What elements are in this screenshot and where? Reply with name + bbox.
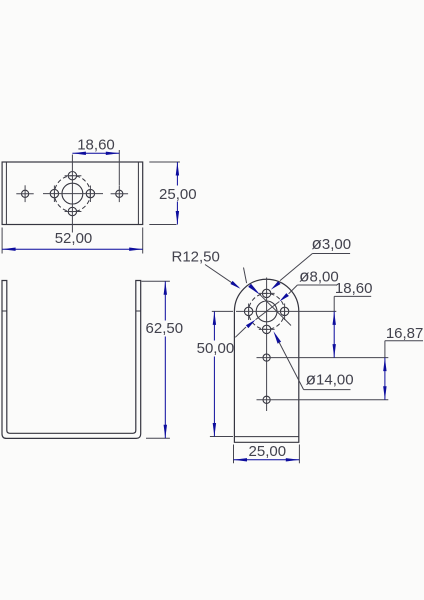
dim 50,00 bottom extension line bbox=[210, 436, 233, 438]
Ø3,00 arrow bbox=[271, 281, 281, 290]
side view: middle hole centerline + ext bbox=[257, 357, 389, 359]
top view: right hole v-centerline bbox=[118, 185, 120, 202]
side view: top hole tick bbox=[259, 292, 275, 294]
dim 25,00(side) left arrow bbox=[234, 458, 248, 461]
dim 18,60 right arrow bbox=[106, 152, 120, 155]
dim 16,87 landing line bbox=[385, 340, 423, 342]
side view: bottom hole tick bbox=[259, 328, 275, 330]
Ø14,00 upper arrow bbox=[248, 284, 260, 295]
Ø8,00 leader tail bbox=[235, 327, 246, 337]
top view: right side hole bbox=[116, 190, 123, 197]
Ø14,00 landing line bbox=[304, 389, 351, 391]
dim 25,00 down arrow bbox=[176, 211, 179, 225]
dim line 25,00 upper bbox=[176, 162, 178, 186]
dim 16,87 up arrow bbox=[383, 358, 386, 372]
dim 25,00 up arrow bbox=[176, 162, 179, 176]
dim 52,00 right extension line bbox=[142, 228, 144, 254]
top view: right Ø3 hole bbox=[86, 189, 94, 197]
top view: left side hole bbox=[22, 190, 29, 197]
dim 52,00 left arrow bbox=[2, 248, 16, 251]
dim 62,50 top extension line bbox=[142, 280, 170, 282]
side view: lower hole bbox=[263, 396, 270, 403]
dim line 50,00 upper bbox=[213, 311, 215, 340]
top view: right small hole tick bbox=[89, 186, 91, 203]
R12,50 leader line bbox=[205, 265, 239, 288]
Ø8,00 lower arrow bbox=[246, 320, 256, 329]
side view: bottom bend line bbox=[234, 436, 298, 438]
svg-text:50,00: 50,00 bbox=[197, 340, 235, 357]
top view: bottom Ø3 hole bbox=[68, 207, 76, 215]
side view: center hole Ø8 bbox=[256, 301, 277, 322]
front view: left wall bend tick bbox=[2, 310, 7, 312]
dim line 52,00 bbox=[2, 248, 143, 250]
dim 50,00 top extension line bbox=[212, 310, 233, 312]
dim 25,00 top extension line bbox=[149, 161, 180, 163]
svg-text:ø3,00: ø3,00 bbox=[312, 234, 352, 253]
Ø14,00 lower arrow bbox=[273, 331, 281, 344]
dim 25,00 bottom extension line bbox=[149, 224, 176, 226]
Ø3,00 landing line bbox=[312, 253, 350, 255]
top view: cluster vertical centerline bbox=[71, 155, 73, 233]
dim 52,00 right arrow bbox=[129, 248, 143, 251]
top view: left hole h-centerline bbox=[16, 193, 33, 195]
dim line 50,00 lower bbox=[213, 357, 215, 437]
dim 25,00(side) right arrow bbox=[286, 458, 300, 461]
side view: top Ø3 hole bbox=[262, 289, 270, 297]
top view: top hole tick bbox=[65, 175, 82, 177]
dim 18,60 leader drop bbox=[333, 296, 335, 311]
side view: lower hole centerline + ext bbox=[257, 399, 389, 401]
Ø8,00 landing line bbox=[297, 284, 336, 286]
dim 50,00 down arrow bbox=[213, 423, 216, 437]
svg-text:R12,50: R12,50 bbox=[172, 249, 220, 266]
dim 62,50 down arrow bbox=[164, 425, 167, 439]
side view: right Ø3 hole bbox=[280, 307, 288, 315]
svg-text:52,00: 52,00 bbox=[55, 230, 93, 247]
Ø14,00 leader line bbox=[279, 342, 304, 390]
dim 18,60 down arrow (side) bbox=[333, 344, 336, 358]
top view: left hole v-centerline bbox=[24, 185, 26, 202]
top view: bottom hole tick bbox=[65, 211, 82, 213]
dim 50,00 up arrow bbox=[213, 311, 216, 325]
R12,50 arrow bbox=[230, 281, 240, 289]
svg-text:18,60: 18,60 bbox=[77, 137, 115, 154]
dim 18,60 landing line bbox=[334, 295, 371, 297]
Ø8,00 leader line bbox=[289, 285, 298, 294]
dim 25,00(side) left extension line bbox=[233, 445, 235, 464]
Ø14,00 diameter line through bolt circle bbox=[260, 295, 291, 326]
dim line 18,60 (side) bbox=[333, 311, 335, 357]
dim 62,50 up arrow bbox=[164, 281, 167, 295]
svg-text:16,87: 16,87 bbox=[386, 325, 424, 342]
top view: top Ø3 hole bbox=[68, 172, 76, 180]
top view: center hole Ø8 bbox=[62, 183, 83, 204]
side view: plate outline with rounded top bbox=[234, 279, 298, 442]
dim line 18,60 (top view) bbox=[72, 152, 119, 154]
dim line 62,50 lower bbox=[164, 337, 166, 439]
side view: left Ø3 hole bbox=[244, 307, 252, 315]
side view: bottom Ø3 hole bbox=[262, 325, 270, 333]
side view: middle hole bbox=[263, 354, 270, 361]
top view: left bend line bbox=[5, 162, 7, 225]
front view: U channel outline bbox=[2, 281, 141, 439]
Ø3,00 leader line bbox=[280, 254, 312, 281]
svg-text:ø14,00: ø14,00 bbox=[306, 369, 354, 388]
dim 18,60 left arrow bbox=[72, 152, 86, 155]
dim 18,60 up arrow (side) bbox=[333, 311, 336, 325]
dim 62,50 bottom extension line bbox=[146, 437, 170, 439]
top view: left Ø3 hole bbox=[50, 189, 58, 197]
Ø8,00 upper arrow bbox=[279, 293, 289, 302]
svg-text:25,00: 25,00 bbox=[249, 443, 287, 460]
side view: bolt circle Ø14 (dashed) bbox=[249, 293, 285, 329]
top view: left small hole tick bbox=[53, 186, 55, 203]
side view: vertical centerline bbox=[266, 278, 268, 412]
svg-text:25,00: 25,00 bbox=[159, 186, 197, 203]
side view: horizontal centerline + 18,60 ext bbox=[236, 310, 336, 312]
top view: cluster horizontal centerline bbox=[43, 193, 103, 195]
dim 25,00(side) right extension line bbox=[298, 445, 300, 464]
Ø14,00 upper stub bbox=[244, 268, 247, 284]
top view: bolt circle Ø14 (dashed) bbox=[54, 176, 90, 212]
top view: right hole h-centerline bbox=[111, 193, 129, 195]
dim 52,00 left extension line bbox=[1, 228, 3, 254]
side view: right small hole tick bbox=[284, 304, 286, 321]
svg-text:18,60: 18,60 bbox=[335, 280, 373, 297]
svg-text:62,50: 62,50 bbox=[146, 320, 184, 337]
top view: right bend line bbox=[137, 162, 139, 225]
dim 16,87 leader drop bbox=[384, 341, 386, 358]
side view: left small hole tick bbox=[248, 304, 250, 321]
dim line 25,00 lower bbox=[176, 202, 178, 225]
svg-text:ø8,00: ø8,00 bbox=[299, 267, 339, 286]
dim line 16,87 bbox=[384, 358, 386, 400]
dim 16,87 down arrow bbox=[383, 386, 386, 400]
dim 18,60 right extension line bbox=[118, 150, 120, 185]
front view: right wall bend tick bbox=[136, 310, 141, 312]
dim line 25,00 (side) bbox=[234, 459, 300, 461]
dim line 62,50 upper bbox=[164, 281, 166, 320]
top view: plate outline bbox=[2, 162, 143, 225]
Ø8,00 diameter line through hole bbox=[256, 302, 280, 320]
